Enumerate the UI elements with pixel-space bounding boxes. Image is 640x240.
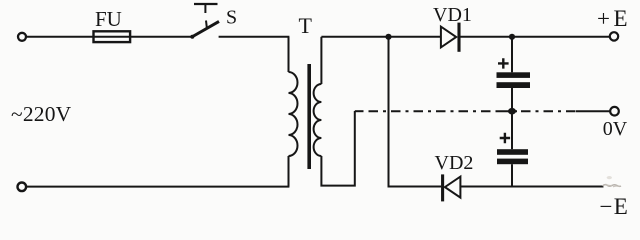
wire: 0V dash-dot line (left solid start) (355, 110, 364, 112)
wire: VD1 cathode to +E terminal (461, 36, 611, 38)
node: 0V / C1-C2 junction (508, 108, 516, 115)
capacitor C1: bottom lead (511, 88, 513, 111)
wire: 0V dash-dot line (left section) (369, 110, 497, 112)
svg-text:S: S (226, 7, 237, 29)
svg-text:−E: −E (600, 194, 628, 219)
svg-text:0V: 0V (603, 118, 628, 140)
transformer T: secondary winding (314, 84, 322, 156)
watermark remnant near -E wire end (603, 185, 622, 187)
capacitor C2: top lead (511, 111, 513, 149)
transformer T: secondary bottom lead (321, 111, 354, 186)
transformer T: primary winding (289, 72, 298, 156)
wire: top-left terminal to switch pivot (through fuse) (26, 36, 192, 38)
wire: junction down to VD2 cathode side (389, 37, 442, 187)
transformer T: primary top lead (288, 37, 290, 72)
transformer T: primary bottom lead (288, 156, 290, 187)
capacitor C2: polarity + (500, 133, 510, 143)
terminal: AC input L (top-left) (18, 33, 26, 41)
switch S: blade (192, 21, 219, 37)
wire: VD2 anode to -E end (461, 186, 604, 188)
wire: 0V line through junction (496, 110, 517, 112)
svg-text:VD1: VD1 (433, 4, 472, 26)
svg-text:T: T (299, 13, 313, 38)
switch S: pivot dot (190, 35, 194, 39)
transformer T: secondary top lead (320, 37, 322, 84)
wire: secondary top to VD1 anode (321, 36, 440, 38)
terminal: +E output (610, 32, 618, 40)
switch S: top bar (194, 3, 218, 5)
switch S: plunger stem (two segments) (204, 4, 206, 13)
diode VD2 (445, 177, 461, 198)
diode VD1 (441, 27, 456, 48)
capacitor C2: bottom lead (511, 164, 513, 186)
capacitor C1: polarity + (498, 58, 509, 68)
fuse FU (94, 31, 131, 42)
svg-text:VD2: VD2 (435, 152, 474, 174)
terminal: 0V output (610, 107, 619, 116)
capacitor C2: plates (497, 149, 528, 155)
terminal: AC input N (bottom-left) (18, 183, 27, 192)
capacitor C1: plates (497, 72, 531, 78)
transformer T: core (307, 64, 311, 169)
wire: 0V line right solid end (576, 110, 610, 112)
svg-text:FU: FU (95, 7, 122, 31)
wire: switch fixed contact to transformer primary top (219, 36, 290, 38)
node: +E rail / C1 junction (509, 34, 515, 40)
node: junction of secondary top / VD2 feed (385, 34, 391, 40)
wire: 0V dash-dot line (right section) (521, 110, 576, 112)
wire: bottom rail from N terminal to transformer primary bottom (26, 186, 289, 188)
capacitor C1: top lead (511, 37, 513, 73)
svg-text:~220V: ~220V (11, 102, 72, 126)
